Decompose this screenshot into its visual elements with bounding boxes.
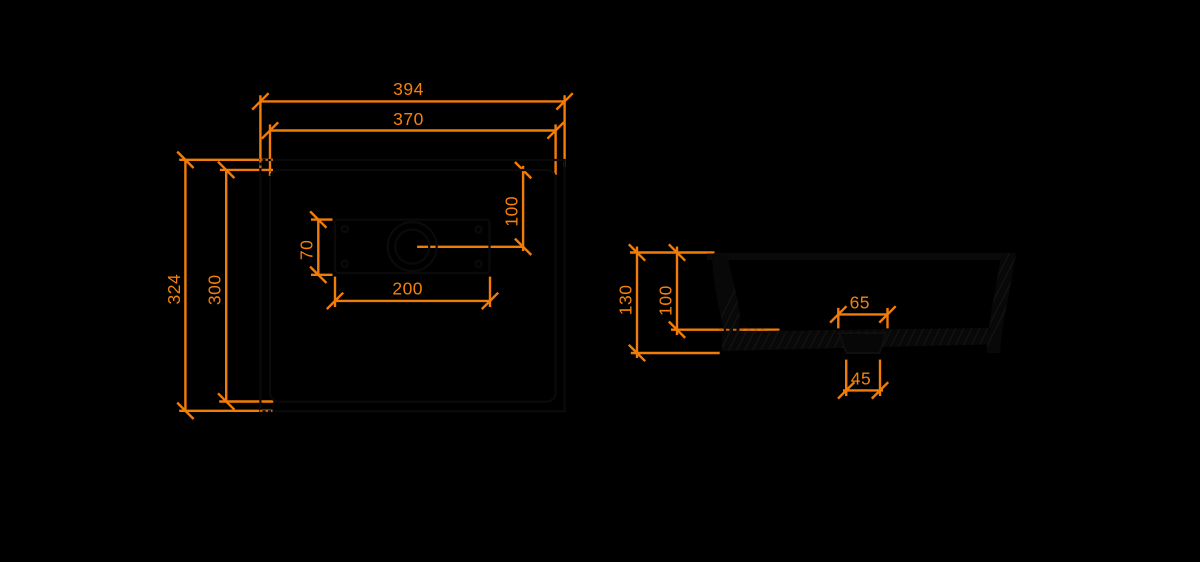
- hole bottom-left: [342, 261, 348, 267]
- svg-text:45: 45: [851, 369, 871, 389]
- dimension 394: [252, 93, 573, 170]
- dimension 45: [838, 360, 888, 399]
- svg-text:370: 370: [393, 109, 424, 129]
- dimension 324: [177, 152, 273, 419]
- inner port circle: [395, 230, 429, 264]
- svg-text:130: 130: [615, 285, 635, 316]
- dashes on 394 left ext: [259, 160, 261, 170]
- svg-text:100: 100: [501, 196, 521, 227]
- dimension 65: [830, 306, 896, 328]
- svg-text:324: 324: [164, 274, 184, 305]
- svg-text:65: 65: [850, 292, 870, 312]
- dashes on 324 bottom ext: [260, 410, 273, 412]
- dashes on 100 mid ext over rail: [719, 329, 766, 331]
- dimension 100 left: [417, 162, 531, 255]
- hole top-left: [342, 226, 348, 232]
- dimension 370: [262, 122, 564, 176]
- inner rectangle 370x300 rounded: [270, 170, 556, 402]
- outer port circle: [388, 222, 437, 271]
- desktop edge band: [707, 253, 1016, 260]
- hatch strokes over legs and rail: [700, 240, 1040, 360]
- rail cross-section trapezoid 65/45: [839, 333, 886, 353]
- redraw top ext over desktop band: [707, 252, 714, 254]
- dimension 130: [629, 244, 720, 361]
- left leg (curved, hatched): [712, 254, 740, 351]
- side view dark shapes: [700, 240, 1040, 360]
- right leg (curved, hatched): [987, 253, 1016, 353]
- outer rectangle 394x324 front view: [260, 160, 564, 411]
- hole bottom-right: [475, 261, 481, 267]
- svg-text:200: 200: [392, 279, 423, 299]
- svg-text:394: 394: [393, 79, 424, 99]
- dimension 200: [327, 277, 498, 310]
- center recess rectangle 200x70: [335, 220, 490, 273]
- dimension 70: [310, 211, 332, 283]
- dimension 100 middle: [669, 244, 780, 338]
- svg-text:70: 70: [297, 240, 317, 260]
- svg-text:100: 100: [655, 285, 675, 316]
- svg-text:300: 300: [205, 274, 225, 305]
- dashes on 370 left ext: [269, 170, 271, 176]
- hole top-right: [475, 226, 481, 232]
- dimension 300: [218, 162, 273, 410]
- dashes on 324 top ext: [260, 159, 273, 161]
- bottom rail band (hatched): [722, 328, 988, 351]
